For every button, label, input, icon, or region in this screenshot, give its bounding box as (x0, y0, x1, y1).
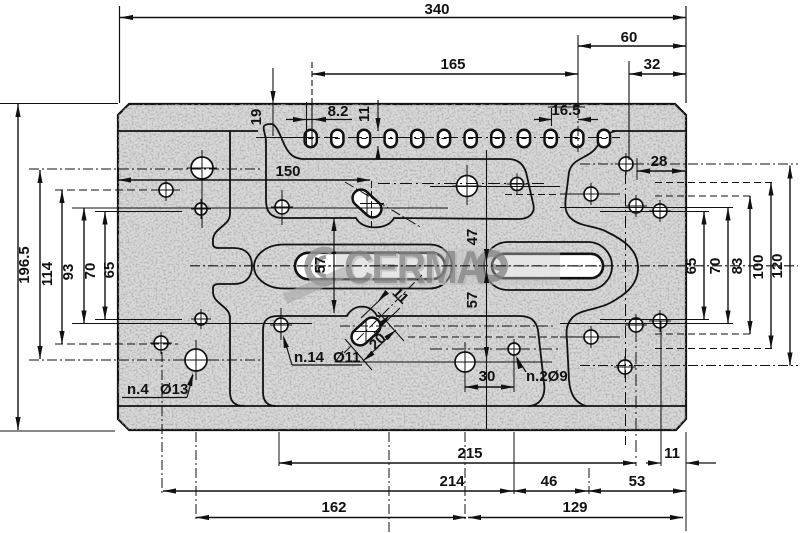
dim 20 lower slot (345, 312, 404, 370)
dim 16.5 (534, 119, 552, 121)
svg-text:57: 57 (312, 257, 329, 274)
svg-text:32: 32 (644, 56, 661, 73)
hole at (166,190) (159, 183, 173, 197)
svg-text:Ø13: Ø13 (160, 381, 188, 398)
right region contour (565, 131, 638, 406)
svg-text:n.14: n.14 (294, 349, 325, 366)
dim 215 (278, 440, 280, 463)
hole at (636,206) (629, 199, 643, 213)
dim 57 left slot (333, 218, 335, 313)
svg-text:16.5: 16.5 (551, 102, 580, 119)
hole at (591,337) (584, 330, 598, 344)
hole at (591,194) (584, 187, 598, 201)
hole at (201,209) (195, 203, 207, 215)
centerlines (190, 265, 798, 267)
svg-text:214: 214 (439, 473, 465, 490)
dim 340 (119, 6, 121, 103)
dim 60 (578, 45, 686, 47)
hole at (636,325) (629, 318, 643, 332)
inner contour bottom line (118, 405, 686, 407)
dim 165 (311, 62, 313, 105)
svg-text:70: 70 (707, 258, 724, 275)
hole at (196,360) (185, 349, 207, 371)
svg-text:n.4: n.4 (127, 381, 149, 398)
svg-text:CERMA: CERMA (344, 243, 485, 294)
dim 30 (464, 375, 466, 392)
hole at (660,211) (653, 204, 667, 218)
svg-text:83: 83 (729, 258, 746, 275)
svg-text:150: 150 (275, 163, 300, 180)
bottom vertical extension lines (161, 352, 163, 495)
dim 47 / 57 center column (486, 150, 488, 429)
svg-text:129: 129 (562, 499, 587, 516)
hole at (201,319) (195, 313, 207, 325)
hole at (514,349) (508, 343, 520, 355)
svg-text:70: 70 (82, 263, 99, 280)
dim 28 (636, 158, 638, 180)
svg-text:46: 46 (541, 473, 558, 490)
svg-text:11: 11 (356, 106, 373, 122)
svg-text:65: 65 (683, 258, 700, 275)
hole at (626,164) (619, 157, 633, 171)
dim 11 bottom (646, 462, 661, 464)
dim 162 / 129 (196, 517, 466, 519)
right dims 65 70 83 100 120 (703, 212, 705, 320)
dim 11 top (377, 100, 379, 131)
svg-text:65: 65 (101, 262, 118, 279)
dim 19 (272, 68, 274, 104)
svg-text:100: 100 (750, 254, 767, 279)
dim 214 (163, 490, 513, 492)
hole at (282,207) (275, 200, 289, 214)
dim 11 lower slot (361, 294, 400, 333)
lower middle pocket outline (263, 307, 544, 406)
svg-text:53: 53 (629, 473, 646, 490)
svg-text:340: 340 (424, 1, 449, 18)
svg-text:114: 114 (39, 261, 56, 286)
hole at (660,321) (653, 314, 667, 328)
dim 150 (371, 181, 373, 228)
upper angled slot (349, 186, 385, 221)
hole at (517,184) (511, 178, 524, 191)
hole at (625,367) (618, 360, 632, 374)
left central slot (295, 253, 445, 279)
svg-text:196.5: 196.5 (16, 246, 33, 284)
svg-text:19: 19 (248, 109, 265, 126)
lower angled slot (348, 314, 384, 349)
svg-text:30: 30 (479, 368, 496, 385)
hole at (161,343) (154, 336, 168, 350)
left dims 196.5 114 93 70 65 (0, 103, 118, 105)
svg-text:165: 165 (440, 56, 465, 73)
dim 8.2 (286, 119, 352, 121)
inner contour top-left (118, 130, 258, 132)
left slot pocket with nose (254, 245, 452, 289)
svg-text:47: 47 (464, 229, 481, 246)
upper middle pocket outline (264, 124, 534, 227)
right central slot (492, 254, 603, 278)
svg-text:8.2: 8.2 (328, 103, 349, 120)
svg-text:28: 28 (651, 153, 668, 170)
svg-text:120: 120 (769, 253, 786, 278)
right slot counterbore (484, 242, 612, 290)
hole at (281,325) (274, 318, 288, 332)
svg-text:60: 60 (621, 29, 638, 46)
top slot row (305, 130, 317, 147)
CERMAG watermark (285, 243, 560, 299)
svg-text:162: 162 (321, 499, 346, 516)
hole at (202,168) (191, 157, 213, 179)
svg-text:11: 11 (664, 445, 680, 462)
left scalloped contour (213, 131, 252, 406)
svg-text:93: 93 (60, 264, 77, 281)
hole at (467,186) (457, 176, 478, 197)
plate body (118, 104, 686, 430)
dim 32 (628, 61, 630, 160)
svg-text:215: 215 (457, 445, 482, 462)
hole at (465,362) (455, 352, 475, 372)
svg-text:n.2Ø9: n.2Ø9 (526, 368, 568, 385)
svg-text:57: 57 (464, 292, 481, 309)
